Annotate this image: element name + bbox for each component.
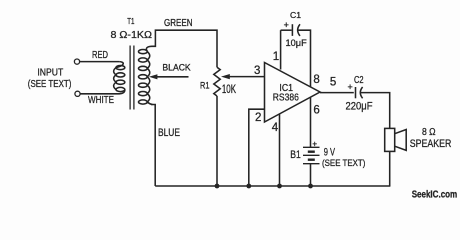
svg-text:INPUT: INPUT bbox=[37, 68, 63, 79]
svg-text:R1: R1 bbox=[200, 81, 210, 91]
wire input bottom to T1 primary bbox=[80, 93, 119, 95]
wire pin 2 to ground rail bbox=[249, 109, 265, 186]
svg-text:C2: C2 bbox=[354, 75, 364, 86]
wire input top to T1 primary bbox=[80, 61, 119, 63]
svg-text:(SEE TEXT): (SEE TEXT) bbox=[322, 158, 365, 169]
wire battery bottom to ground rail bbox=[310, 164, 312, 186]
svg-text:C1: C1 bbox=[290, 10, 301, 20]
svg-text:1: 1 bbox=[273, 51, 279, 63]
svg-text:+: + bbox=[284, 20, 289, 30]
svg-text:10μF: 10μF bbox=[286, 38, 307, 49]
svg-text:WHITE: WHITE bbox=[88, 94, 114, 106]
battery B1 plates bbox=[303, 147, 320, 163]
svg-text:9 V: 9 V bbox=[324, 147, 336, 159]
svg-text:5: 5 bbox=[330, 77, 336, 89]
speaker SPK1 frame bbox=[385, 128, 395, 151]
wire pin 1 up to C1 bbox=[280, 30, 282, 69]
junction dot pin2/ground bbox=[246, 184, 251, 189]
svg-text:8 Ω-1KΩ: 8 Ω-1KΩ bbox=[111, 29, 153, 41]
input terminal J1 top (red lead) bbox=[74, 59, 79, 64]
transformer T1 secondary winding spine bbox=[146, 46, 152, 104]
wire C1 left lead bbox=[281, 29, 292, 31]
R1 wiper arrowhead bbox=[221, 74, 230, 79]
svg-text:6: 6 bbox=[313, 104, 319, 116]
black center-tap pointer line bbox=[155, 76, 189, 78]
svg-text:8: 8 bbox=[313, 74, 319, 86]
transformer T1 primary winding spine bbox=[114, 62, 125, 94]
wire green lead: secondary top up and right to R1 top bbox=[152, 30, 218, 67]
transformer T1 secondary winding loops bbox=[139, 50, 148, 105]
svg-text:+: + bbox=[348, 82, 353, 92]
svg-text:BLACK: BLACK bbox=[162, 63, 190, 73]
junction dot pin4/ground bbox=[277, 184, 282, 189]
op-amp IC1 triangle body bbox=[265, 63, 321, 123]
ground rail (bottom bus wire) bbox=[155, 185, 390, 187]
wire R1 wiper to pin 3 bbox=[227, 76, 265, 78]
wire pin 4 down to ground rail bbox=[279, 114, 281, 186]
wire blue lead: secondary bottom down to ground rail bbox=[151, 105, 155, 187]
svg-text:GREEN: GREEN bbox=[164, 18, 193, 29]
svg-text:SPEAKER: SPEAKER bbox=[410, 138, 452, 150]
svg-text:(SEE TEXT): (SEE TEXT) bbox=[28, 79, 72, 90]
svg-text:10K: 10K bbox=[222, 84, 236, 96]
svg-text:SeekIC.com: SeekIC.com bbox=[412, 189, 458, 201]
svg-text:2: 2 bbox=[255, 112, 261, 124]
transformer T1 primary winding loops bbox=[116, 66, 125, 92]
input terminal J1 bottom (white lead) bbox=[75, 91, 80, 96]
wire C2 right lead to speaker bbox=[361, 93, 390, 129]
wire R1 bottom to ground rail bbox=[216, 96, 218, 186]
svg-text:+: + bbox=[312, 140, 317, 149]
junction dot R1/ground bbox=[215, 184, 220, 189]
svg-text:220μF: 220μF bbox=[346, 100, 373, 112]
svg-text:BLUE: BLUE bbox=[158, 127, 180, 139]
wire pin 5 output to C2 bbox=[320, 92, 354, 94]
svg-text:RED: RED bbox=[92, 50, 108, 61]
black center-tap arrowhead bbox=[149, 74, 158, 79]
svg-text:4: 4 bbox=[272, 122, 279, 134]
junction dot battery/ground bbox=[308, 184, 313, 189]
capacitor C1 plates bbox=[292, 24, 300, 36]
svg-text:B1: B1 bbox=[290, 149, 301, 161]
speaker SPK1 cone bbox=[395, 130, 407, 151]
svg-text:T1: T1 bbox=[127, 16, 134, 26]
capacitor C2 plates bbox=[356, 87, 363, 98]
svg-text:8 Ω: 8 Ω bbox=[422, 127, 436, 138]
wire pin 6 down to battery bbox=[310, 98, 312, 148]
transformer T1 core bbox=[130, 46, 134, 110]
wire C1 right lead to pin 8 bbox=[298, 30, 310, 87]
potentiometer R1 zigzag bbox=[214, 67, 220, 96]
svg-text:RS386: RS386 bbox=[273, 92, 299, 104]
svg-text:3: 3 bbox=[254, 65, 260, 77]
wire speaker bottom to ground rail bbox=[389, 151, 391, 186]
